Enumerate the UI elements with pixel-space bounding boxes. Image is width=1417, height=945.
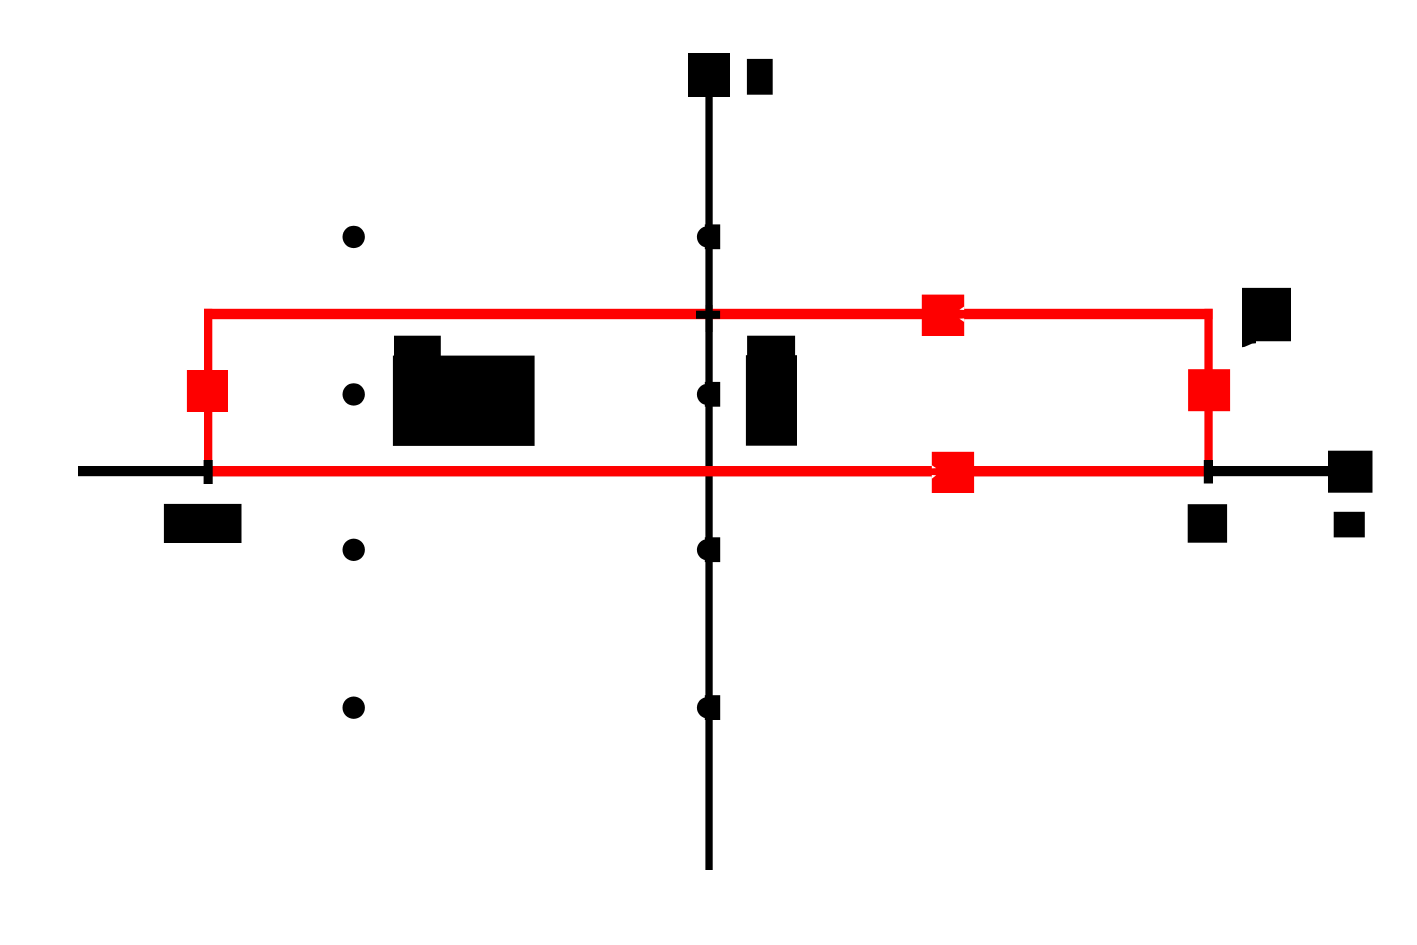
real axis name glyph box	[1334, 512, 1365, 538]
tick at -R on real axis	[204, 460, 213, 484]
notch above line on top marker	[959, 307, 964, 311]
label box -R below left tick	[164, 504, 242, 543]
contour: right side of red rectangle	[1204, 309, 1212, 477]
pole dot row4 left column	[343, 697, 365, 719]
pole label glyph block right of imaginary axis (main part)	[746, 355, 797, 446]
imaginary axis name glyph box	[747, 59, 773, 95]
arrow marker on right side	[1188, 369, 1230, 411]
contour: left side of red rectangle	[204, 309, 212, 477]
arrow marker on bottom side (pointing right)	[932, 452, 974, 493]
bead dot row2 on imaginary axis	[697, 382, 720, 407]
integrand label glyph block (left of centre, main part)	[393, 356, 535, 446]
notch below line on top marker	[959, 318, 964, 322]
real axis (horizontal)	[78, 466, 1328, 476]
label box R below right tick	[1188, 504, 1227, 543]
contour: bottom side of red rectangle	[204, 466, 1213, 476]
arrowhead box at top of imaginary axis	[688, 53, 730, 97]
arrow marker on top side (pointing left)	[922, 295, 964, 336]
pole label glyph block right of imaginary axis (upper part)	[747, 336, 795, 358]
arrow marker on left side	[187, 370, 228, 412]
imaginary axis (vertical)	[705, 95, 712, 870]
contour name glyph box near top-right corner	[1242, 288, 1291, 347]
pole dot row2 left column	[343, 383, 365, 405]
tick on imaginary axis at top-side level	[696, 311, 720, 319]
bead dot row3 on imaginary axis	[697, 537, 720, 562]
pole dot row1 left column	[343, 226, 365, 248]
integrand label glyph block (left of centre, upper part)	[394, 336, 441, 358]
tick at R on real axis	[1204, 460, 1213, 484]
arrowhead box at right of real axis	[1328, 451, 1373, 493]
bead dot row1 on imaginary axis	[697, 224, 720, 249]
contour: top side of red rectangle	[204, 309, 1213, 319]
notch below line on bottom marker	[932, 475, 936, 479]
imaginary axis segment over contour top side	[705, 305, 712, 332]
pole dot row3 left column	[343, 539, 365, 561]
notch above line on bottom marker	[932, 465, 936, 468]
bead dot row4 on imaginary axis	[697, 695, 720, 720]
